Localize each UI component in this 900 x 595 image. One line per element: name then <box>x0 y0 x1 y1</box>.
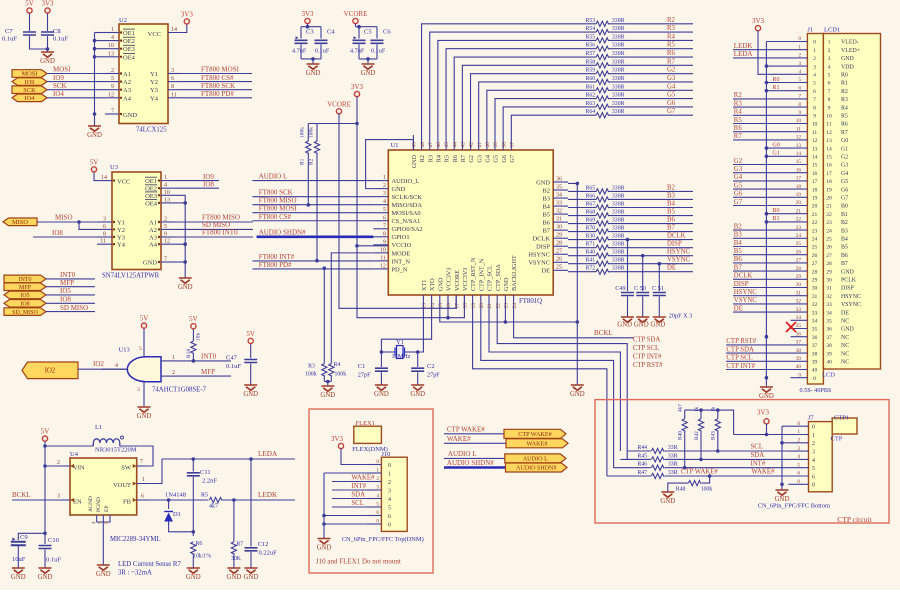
wire AUDIO SHDN# to U1 (thick) <box>257 236 374 239</box>
resistor R7 30K <box>233 500 235 542</box>
graphics controller U1 FT801Q <box>388 150 553 295</box>
svg-text:AUDIO SHDN#: AUDIO SHDN# <box>516 466 556 472</box>
wire B6 net right <box>609 223 693 225</box>
svg-text:5V: 5V <box>246 330 255 338</box>
ground GND (U13) <box>138 407 151 412</box>
wire CTP WAKE# to port <box>444 433 504 435</box>
svg-text:6: 6 <box>813 89 816 95</box>
capacitor C8 <box>41 32 54 35</box>
svg-text:17: 17 <box>796 176 802 182</box>
svg-text:38: 38 <box>501 142 507 148</box>
svg-text:0: 0 <box>797 479 800 485</box>
svg-text:GND: GND <box>137 413 152 420</box>
J1 stub row 37 <box>791 344 808 346</box>
svg-text:330R: 330R <box>612 51 625 57</box>
wire 3V3 to J10 row0 <box>341 449 367 465</box>
wire FT800 INT# to U1 <box>252 260 373 262</box>
svg-text:3V3: 3V3 <box>752 17 765 25</box>
U1 bottom pin 14 XTO <box>431 295 433 309</box>
wire INT# row to J7 <box>665 467 789 469</box>
svg-text:14: 14 <box>101 175 107 181</box>
svg-text:8: 8 <box>828 97 831 103</box>
svg-text:5: 5 <box>812 466 815 472</box>
svg-text:GND: GND <box>392 186 406 193</box>
svg-text:15: 15 <box>812 163 818 169</box>
wire U1 R7 to R bank <box>462 65 596 135</box>
svg-text:SDA: SDA <box>351 492 365 499</box>
ground GND (C49) <box>621 317 634 322</box>
resistor R53 330R <box>596 21 609 26</box>
power 5V (R18) <box>191 324 196 329</box>
svg-text:39: 39 <box>812 360 818 366</box>
junction 3V3/R-rail <box>355 122 359 126</box>
svg-text:NC: NC <box>841 351 849 357</box>
svg-text:330R: 330R <box>612 266 625 272</box>
svg-text:19: 19 <box>826 187 832 193</box>
resistor R30 330R <box>596 237 609 242</box>
svg-text:G2: G2 <box>734 158 743 165</box>
U1 pin 9 VCCIO <box>373 244 388 246</box>
svg-text:GND: GND <box>503 277 510 291</box>
svg-text:330R: 330R <box>612 193 625 199</box>
svg-text:13: 13 <box>422 303 428 309</box>
svg-text:3V3: 3V3 <box>181 10 194 18</box>
junction MISO branch <box>77 220 81 224</box>
svg-text:VDD: VDD <box>841 64 855 70</box>
J1 stub row 5 <box>791 82 808 84</box>
J1 stub row 20 <box>791 205 808 207</box>
svg-text:B4: B4 <box>543 203 551 210</box>
wire XT1 to crystal right <box>418 309 424 352</box>
junction B1 tie <box>765 220 769 224</box>
wire G5 to J1 <box>733 188 791 190</box>
wire DE net right <box>609 271 693 273</box>
J1 stub row 3 <box>791 65 808 67</box>
svg-text:NC: NC <box>841 343 849 349</box>
svg-text:A4: A4 <box>123 95 132 102</box>
capacitor C6 0.1uF <box>376 27 378 39</box>
svg-text:14: 14 <box>796 151 802 157</box>
J10 stub row 7 <box>367 523 381 525</box>
ground GND (C1) <box>375 385 388 390</box>
resistor R71 330R <box>596 245 609 250</box>
wire R5 to LEDK <box>222 499 295 501</box>
svg-text:R42: R42 <box>694 431 700 440</box>
svg-text:R30: R30 <box>586 234 596 240</box>
capacitor C9 10uF <box>11 542 26 545</box>
svg-text:CTP RST#: CTP RST# <box>726 338 756 345</box>
svg-text:22: 22 <box>812 220 818 226</box>
U1 bottom pin 23 GND <box>504 295 506 309</box>
svg-text:R64: R64 <box>586 109 596 115</box>
svg-text:1k: 1k <box>711 406 717 412</box>
svg-text:0: 0 <box>813 40 816 46</box>
wire R2 to J1 <box>733 98 791 100</box>
svg-text:330R: 330R <box>612 68 625 74</box>
wire CTP SDA from U1 <box>497 309 627 459</box>
svg-text:R3: R3 <box>308 364 315 370</box>
svg-text:3: 3 <box>813 64 816 70</box>
junction GND pin23 <box>504 320 508 324</box>
svg-text:MISO: MISO <box>12 219 28 226</box>
wire G7 net <box>609 114 693 116</box>
svg-text:G2: G2 <box>841 155 848 161</box>
svg-text:R2: R2 <box>419 155 426 162</box>
svg-text:2: 2 <box>828 48 831 54</box>
wire AUDIO SHDN# to port (thick) <box>444 466 506 469</box>
svg-text:16: 16 <box>812 171 818 177</box>
svg-text:INT#: INT# <box>351 483 366 490</box>
svg-text:VCC3V3: VCC3V3 <box>462 268 469 291</box>
svg-text:G6: G6 <box>667 100 676 107</box>
svg-text:4.7uF: 4.7uF <box>292 48 307 55</box>
wire U3 A3 net FT800 INT0 <box>175 236 253 238</box>
J1 stub row 19 <box>791 196 808 198</box>
svg-text:IO2: IO2 <box>45 368 56 375</box>
svg-text:9: 9 <box>813 114 816 120</box>
U1 pin 5 MOSI/SA0 <box>373 212 388 214</box>
svg-text:OE4: OE4 <box>145 200 158 207</box>
svg-text:GND: GND <box>38 574 53 581</box>
svg-text:27: 27 <box>556 249 562 255</box>
wire B7 net right <box>609 231 693 233</box>
svg-text:10: 10 <box>796 118 802 124</box>
svg-text:CTP INT#: CTP INT# <box>726 363 755 370</box>
J1 stub row 38 <box>791 352 808 354</box>
svg-text:0: 0 <box>376 519 379 525</box>
wire U1 R5 to R bank <box>446 49 596 135</box>
svg-text:FT800 SCK: FT800 SCK <box>259 189 293 197</box>
capacitor C3 4.7uF <box>300 27 302 39</box>
wire U3 A1 net FT800 MISO <box>175 221 253 223</box>
wire FT800 SCK <box>182 89 252 91</box>
svg-text:C1: C1 <box>358 363 366 370</box>
svg-text:R18: R18 <box>186 349 192 358</box>
svg-text:6: 6 <box>171 76 174 82</box>
svg-text:1: 1 <box>142 477 145 483</box>
wire CTP INT# to J1 <box>726 369 791 371</box>
svg-text:VCC: VCC <box>148 31 161 38</box>
wire IO8 to Y3 <box>33 236 97 238</box>
svg-text:1: 1 <box>798 44 801 50</box>
wire MFP row <box>177 375 231 377</box>
svg-text:27pF: 27pF <box>427 372 440 379</box>
svg-text:Y2: Y2 <box>117 227 125 234</box>
svg-text:22: 22 <box>495 303 501 309</box>
port WAKE# <box>506 439 568 448</box>
svg-text:26: 26 <box>812 253 818 259</box>
svg-text:R68: R68 <box>586 210 596 216</box>
resistor R40 330R <box>596 253 609 258</box>
U3 pin 1 OE1 <box>161 180 175 182</box>
capacitor C47 0.1uF <box>250 344 252 359</box>
U1 bottom pin 13 XT1 <box>422 295 424 309</box>
svg-text:CTP INT#: CTP INT# <box>633 353 662 360</box>
resistor R45 33R <box>651 457 664 462</box>
svg-text:R45: R45 <box>637 453 647 459</box>
svg-text:16: 16 <box>446 303 452 309</box>
svg-text:9: 9 <box>828 105 831 111</box>
svg-text:NC: NC <box>841 335 849 341</box>
wire FT800 PD# <box>182 97 252 99</box>
svg-text:INT0: INT0 <box>19 277 32 283</box>
svg-text:C10: C10 <box>48 537 59 544</box>
svg-text:MFP: MFP <box>201 368 215 376</box>
wire R1 tie <box>766 90 790 92</box>
svg-text:GND: GND <box>536 179 550 186</box>
svg-text:35: 35 <box>796 323 802 329</box>
crystal Y1 12MHz <box>381 351 395 353</box>
svg-text:R4: R4 <box>334 362 341 368</box>
svg-text:38: 38 <box>796 348 802 354</box>
svg-text:GPIO0/SA2: GPIO0/SA2 <box>392 226 423 233</box>
U3 pin 12 A4 <box>161 243 175 245</box>
svg-text:R60: R60 <box>586 76 596 82</box>
svg-text:20: 20 <box>796 200 802 206</box>
svg-text:G6: G6 <box>841 187 848 193</box>
svg-text:B3: B3 <box>841 228 848 234</box>
capacitor C10 0.1uF <box>39 546 52 549</box>
svg-text:GND: GND <box>374 391 389 398</box>
svg-text:MISO: MISO <box>55 214 73 222</box>
J7 stub row 6 <box>788 475 808 477</box>
port IO8 <box>4 300 46 308</box>
svg-text:C7: C7 <box>5 28 13 35</box>
wire HSYNC net right <box>609 255 693 257</box>
svg-text:5V: 5V <box>90 158 99 166</box>
svg-text:C12: C12 <box>258 541 269 548</box>
wire U1 B2 to R bank <box>568 190 596 192</box>
svg-text:46: 46 <box>436 142 442 148</box>
wire CTP INT# from U1 <box>481 309 614 468</box>
svg-text:U1: U1 <box>391 142 399 149</box>
svg-text:R65: R65 <box>586 185 596 191</box>
diode D1 1N4148 <box>167 498 171 502</box>
svg-text:B5: B5 <box>667 209 676 216</box>
J7 stub row 7 <box>788 483 808 485</box>
wire R0 tie <box>766 82 790 84</box>
svg-text:C 50: C 50 <box>634 285 646 292</box>
svg-text:5V: 5V <box>41 428 50 436</box>
svg-text:IO9: IO9 <box>25 79 35 86</box>
svg-text:C3: C3 <box>306 29 314 36</box>
svg-text:0.5S- 40PBS: 0.5S- 40PBS <box>800 387 833 394</box>
power 3V3 (C8) <box>47 13 49 31</box>
wire G6 net <box>609 106 693 108</box>
svg-text:0.1uF: 0.1uF <box>53 36 68 43</box>
svg-text:18: 18 <box>796 184 802 190</box>
svg-text:B0: B0 <box>772 207 779 214</box>
svg-text:R56: R56 <box>586 43 596 49</box>
svg-text:0.1uF: 0.1uF <box>46 557 61 564</box>
U1 pin 12 PD_N <box>373 268 388 270</box>
svg-text:Y3: Y3 <box>117 235 125 242</box>
svg-text:5: 5 <box>111 76 114 82</box>
svg-text:R6: R6 <box>841 122 848 128</box>
ground GND (U3) <box>179 278 192 283</box>
svg-text:R4: R4 <box>734 109 743 116</box>
svg-text:Y4: Y4 <box>117 242 126 249</box>
wire FT800 MISO to U1 <box>252 204 373 206</box>
svg-text:19: 19 <box>796 192 802 198</box>
resistor R6 10k/1% <box>191 542 196 555</box>
wire U3 A4 to bus <box>175 243 185 245</box>
wire U3 GND to bus <box>175 261 185 263</box>
svg-text:330R: 330R <box>612 258 625 264</box>
U2 pin 1 OE1 <box>105 32 119 34</box>
wire SDA row to J7 <box>665 458 789 460</box>
svg-text:33R: 33R <box>668 462 678 468</box>
J1 stub row 17 <box>791 180 808 182</box>
svg-text:5: 5 <box>376 502 379 508</box>
U3 pin 2 A1 <box>161 221 175 223</box>
svg-text:B6: B6 <box>734 256 743 263</box>
svg-text:39: 39 <box>826 351 832 357</box>
wire MFP <box>46 286 95 288</box>
wire U1 G4 to R bank <box>487 90 596 135</box>
svg-text:G0: G0 <box>841 138 848 144</box>
svg-text:A3: A3 <box>149 235 157 242</box>
U4 pin 2 VIN <box>62 465 70 467</box>
svg-text:37: 37 <box>796 340 802 346</box>
svg-text:VSYNC: VSYNC <box>528 260 550 267</box>
svg-text:12MHz: 12MHz <box>392 353 411 360</box>
svg-text:3V3: 3V3 <box>301 10 314 18</box>
svg-text:B6: B6 <box>841 253 848 259</box>
svg-text:NC: NC <box>841 319 849 325</box>
svg-text:14: 14 <box>826 146 832 152</box>
svg-text:37: 37 <box>812 343 818 349</box>
ground GND (C12) <box>245 568 258 573</box>
svg-text:32: 32 <box>556 209 562 215</box>
svg-text:VSYNC: VSYNC <box>841 302 861 308</box>
svg-text:B2: B2 <box>841 220 848 226</box>
U1 pin 32 B5 <box>553 213 568 215</box>
svg-text:6: 6 <box>141 494 144 500</box>
svg-text:GND: GND <box>651 322 666 329</box>
svg-text:FB: FB <box>123 499 132 506</box>
svg-text:CTP1: CTP1 <box>834 415 849 422</box>
wire 3V3 to J1 <box>758 31 791 75</box>
U3 pin 14 VCC <box>97 180 112 182</box>
wire B1 tie <box>766 221 790 223</box>
U1 pin 11 INT_N <box>373 260 388 262</box>
svg-text:5V: 5V <box>140 315 149 323</box>
svg-text:CTP WAKE#: CTP WAKE# <box>447 425 485 433</box>
junction R0 tie <box>765 81 769 85</box>
svg-text:20: 20 <box>826 196 832 202</box>
svg-text:U4: U4 <box>70 451 79 458</box>
resistor R41 330R <box>596 261 609 266</box>
wire C3/C4 bottom rail <box>301 58 321 60</box>
U2 pin 11 Y4 <box>168 97 182 99</box>
wire SDA row left <box>620 458 651 460</box>
svg-text:G5: G5 <box>667 92 676 99</box>
svg-text:B6: B6 <box>543 220 550 227</box>
port CTP WAKE# <box>504 429 566 438</box>
wire B6 to J1 <box>733 262 791 264</box>
wire XTO to crystal left <box>381 309 431 352</box>
svg-text:100k: 100k <box>305 372 317 378</box>
svg-text:2: 2 <box>812 441 815 447</box>
port AUDIO L <box>505 454 566 463</box>
svg-text:C47: C47 <box>226 355 238 362</box>
U1 pin 35 B2 <box>553 189 568 191</box>
svg-text:HSYNC: HSYNC <box>667 249 691 256</box>
svg-text:FT800 CS#: FT800 CS# <box>259 213 292 221</box>
svg-text:11: 11 <box>812 130 818 136</box>
svg-text:7: 7 <box>828 89 831 95</box>
wire DISP to J1 <box>733 287 791 289</box>
svg-text:B2: B2 <box>543 187 550 194</box>
wire IO9 to U2 <box>47 81 105 83</box>
wire B2 net right <box>609 190 693 192</box>
svg-text:330R: 330R <box>612 18 625 24</box>
svg-text:39: 39 <box>796 356 802 362</box>
U2 pin 2 A1 <box>105 73 119 75</box>
svg-text:12: 12 <box>164 239 170 245</box>
svg-text:4: 4 <box>383 199 386 205</box>
svg-text:GND: GND <box>11 574 26 581</box>
svg-text:C5: C5 <box>364 29 372 36</box>
wire G2 net <box>609 73 693 75</box>
svg-text:R57: R57 <box>586 51 596 57</box>
svg-text:IO2: IO2 <box>93 360 104 368</box>
resistor R40 4k7 pullup <box>684 410 686 419</box>
wire R3 net <box>609 31 693 33</box>
J1 stub row 16 <box>791 172 808 174</box>
svg-text:34: 34 <box>826 310 832 316</box>
svg-text:WAKE#: WAKE# <box>527 441 548 448</box>
J1 stub row 33 <box>791 311 808 313</box>
U4 pin 1 VOUT <box>137 459 162 484</box>
svg-text:SN74LV125ATPWR: SN74LV125ATPWR <box>102 273 160 280</box>
J1 stub row 36 <box>791 336 808 338</box>
svg-text:8: 8 <box>798 102 801 108</box>
svg-text:R5: R5 <box>201 493 208 499</box>
svg-text:A2: A2 <box>123 79 131 86</box>
svg-text:CTP SDA: CTP SDA <box>726 346 754 353</box>
resistor R67 330R <box>596 205 609 210</box>
svg-text:15: 15 <box>438 303 444 309</box>
svg-text:B7: B7 <box>734 264 743 271</box>
svg-text:21: 21 <box>487 303 493 309</box>
svg-text:B3: B3 <box>543 195 550 202</box>
wire VCORE down to U1 <box>339 114 456 308</box>
svg-text:INT_N: INT_N <box>392 258 411 265</box>
svg-text:R63: R63 <box>586 101 596 107</box>
U1 pin 26 VSYNC <box>553 261 568 263</box>
wire 3V3 to J7 row1 <box>766 424 768 435</box>
wire SD_MISO <box>46 311 95 313</box>
svg-text:DE: DE <box>541 268 550 275</box>
svg-text:FT801Q: FT801Q <box>519 298 542 305</box>
wire U1 B7 to R bank <box>568 231 596 233</box>
wire G7 to J1 <box>733 205 791 207</box>
wire U1 G7 to R bank <box>511 115 596 135</box>
svg-text:IO4: IO4 <box>53 90 64 98</box>
svg-text:HSYNC: HSYNC <box>528 252 550 259</box>
svg-text:B4: B4 <box>667 200 676 207</box>
svg-text:3V3: 3V3 <box>351 83 364 91</box>
svg-text:17: 17 <box>454 303 460 309</box>
svg-text:100k: 100k <box>701 487 713 493</box>
U2 pin 14 VCC <box>168 24 187 33</box>
wire J10 row6 <box>324 515 367 517</box>
svg-text:B3: B3 <box>734 232 743 239</box>
wire FT800 CS# to U1 <box>252 220 373 222</box>
svg-text:33R: 33R <box>668 470 678 476</box>
